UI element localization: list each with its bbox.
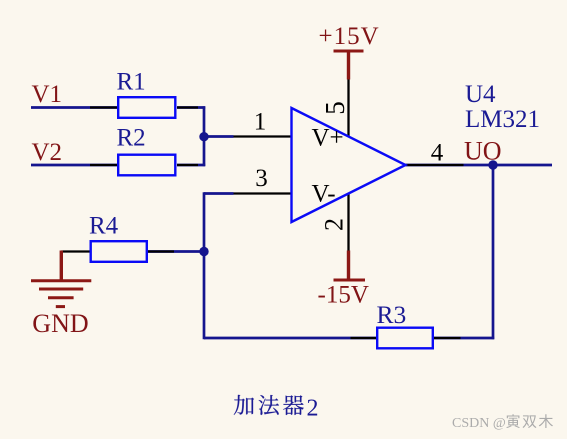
svg-text:CSDN @: CSDN @: [452, 416, 506, 431]
svg-text:UO: UO: [464, 137, 502, 166]
svg-text:V+: V+: [312, 125, 344, 152]
svg-text:5: 5: [320, 101, 350, 115]
svg-text:+15V: +15V: [319, 23, 380, 50]
svg-text:R1: R1: [117, 69, 146, 96]
svg-text:V1: V1: [32, 81, 63, 108]
svg-text:LM321: LM321: [465, 106, 540, 133]
svg-text:R2: R2: [117, 125, 146, 152]
svg-text:R4: R4: [89, 213, 119, 240]
svg-text:U4: U4: [465, 81, 496, 108]
svg-text:V2: V2: [32, 139, 63, 166]
svg-text:4: 4: [431, 140, 444, 167]
svg-text:2: 2: [320, 218, 349, 231]
svg-text:V-: V-: [312, 181, 336, 208]
svg-text:-15V: -15V: [318, 282, 369, 309]
svg-text:GND: GND: [32, 309, 88, 338]
svg-text:2: 2: [307, 396, 319, 422]
svg-text:R3: R3: [377, 300, 407, 329]
svg-text:1: 1: [254, 109, 267, 136]
svg-text:3: 3: [255, 165, 268, 192]
